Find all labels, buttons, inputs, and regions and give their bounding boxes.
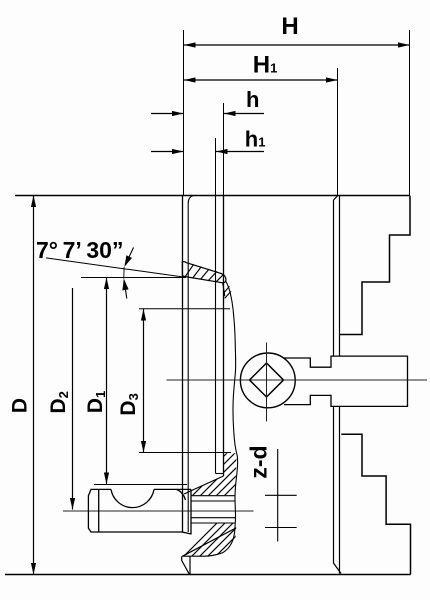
dimension D1	[104, 278, 109, 485]
z-d dimension line	[265, 449, 297, 542]
pinion square socket	[250, 363, 284, 397]
break line wavy	[233, 310, 238, 529]
top jaw	[340, 196, 411, 335]
dimension H1	[184, 77, 338, 82]
svg-text:D: D	[9, 398, 32, 413]
dimension D3	[141, 309, 146, 453]
svg-text:h1: h1	[245, 127, 266, 152]
svg-text:h: h	[246, 87, 259, 112]
thread lines	[191, 496, 236, 523]
break line arc at bevel	[182, 529, 235, 557]
extension line D3 bottom	[139, 452, 231, 454]
pinion circle	[240, 353, 295, 408]
svg-text:H: H	[281, 13, 298, 40]
pinion boss outline	[284, 356, 408, 406]
extension line H1 right	[337, 68, 339, 196]
svg-text:D2: D2	[47, 391, 71, 413]
top outline / D extension top	[15, 195, 410, 197]
taper flange lower sliver	[223, 281, 234, 310]
stud right fillet	[177, 489, 186, 500]
taper flange hatched band	[182, 262, 226, 283]
svg-text:7° 7’ 30”: 7° 7’ 30”	[36, 237, 123, 263]
extension line H right	[409, 30, 411, 196]
chuck recess face line	[188, 196, 193, 533]
dimension H	[184, 42, 410, 47]
dimension D2	[70, 288, 75, 510]
body right face line outer	[334, 196, 342, 574]
bore step line h	[223, 196, 225, 476]
extension line h right	[223, 103, 225, 196]
bottom jaw	[341, 434, 410, 574]
bore step line h1	[215, 196, 217, 474]
angle arrow upper	[124, 248, 133, 268]
extension line D1 bottom	[94, 484, 187, 486]
bottom outline / D extension bottom	[5, 574, 411, 576]
extension line D1 top / angle reference	[81, 277, 186, 279]
pinion vertical centerline	[266, 343, 268, 422]
body right face line inner	[339, 196, 341, 574]
svg-text:H1: H1	[253, 51, 278, 78]
svg-text:D1: D1	[84, 391, 108, 413]
angle dimension stem	[123, 267, 125, 279]
stud (camlock) outline	[88, 489, 191, 534]
dimension D	[31, 196, 36, 575]
angle taper construction line	[46, 258, 186, 278]
svg-text:z-d: z-d	[245, 445, 271, 478]
back cone line	[184, 476, 224, 494]
chuck left face line	[182, 196, 184, 532]
extension line left face top	[183, 30, 185, 196]
dimension h1	[151, 149, 264, 154]
back cone bevel line	[182, 529, 235, 557]
stud cam notch arc	[111, 489, 154, 507]
sliver hatch lines	[223, 286, 229, 293]
angle arrow lower	[122, 279, 128, 299]
dimension h	[151, 111, 264, 116]
body back rim foot	[182, 556, 190, 574]
flange hatch lines	[185, 264, 224, 282]
extension line D3 top	[139, 308, 230, 310]
pinion horizontal centerline	[167, 379, 428, 381]
svg-text:D3: D3	[117, 393, 141, 415]
extension line h1 right	[215, 138, 217, 196]
stud centerline / D2 bottom	[63, 510, 254, 512]
bore bottom cap	[216, 473, 224, 475]
